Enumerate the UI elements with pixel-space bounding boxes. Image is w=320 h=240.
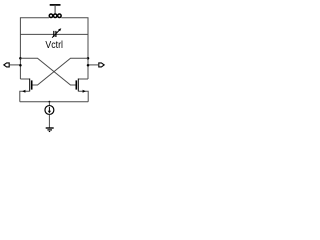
wire top-right tank rail [61, 18, 88, 79]
current source I1 [45, 106, 54, 115]
port OUTM (right) [88, 63, 104, 67]
wire varactor left [20, 33, 53, 35]
wire cross-coupling right drain to left gate [32, 58, 88, 85]
transistor M2 (right NMOS) [76, 79, 88, 102]
svg-text:Vctrl: Vctrl [45, 40, 63, 51]
port OUTP (left) [4, 63, 21, 67]
wire current source stub [48, 102, 50, 106]
node dot left drain-cross junction [19, 57, 22, 60]
node dot right drain-cross junction [87, 57, 90, 60]
ground [46, 128, 54, 132]
inductor L1 [49, 14, 61, 17]
node dot tail junction [49, 101, 51, 103]
wire current source to ground [48, 115, 50, 128]
wire varactor right [56, 33, 88, 35]
wire tail (sources to current source) [20, 101, 88, 103]
transistor M1 (left NMOS) [20, 79, 32, 102]
node dot left port junction [19, 64, 22, 67]
wire top-left tank rail [20, 18, 49, 79]
varactor C1 [52, 28, 61, 38]
wire cross-coupling left drain to right gate [20, 58, 76, 85]
node dot right port junction [87, 64, 90, 67]
vdd supply [50, 5, 61, 14]
